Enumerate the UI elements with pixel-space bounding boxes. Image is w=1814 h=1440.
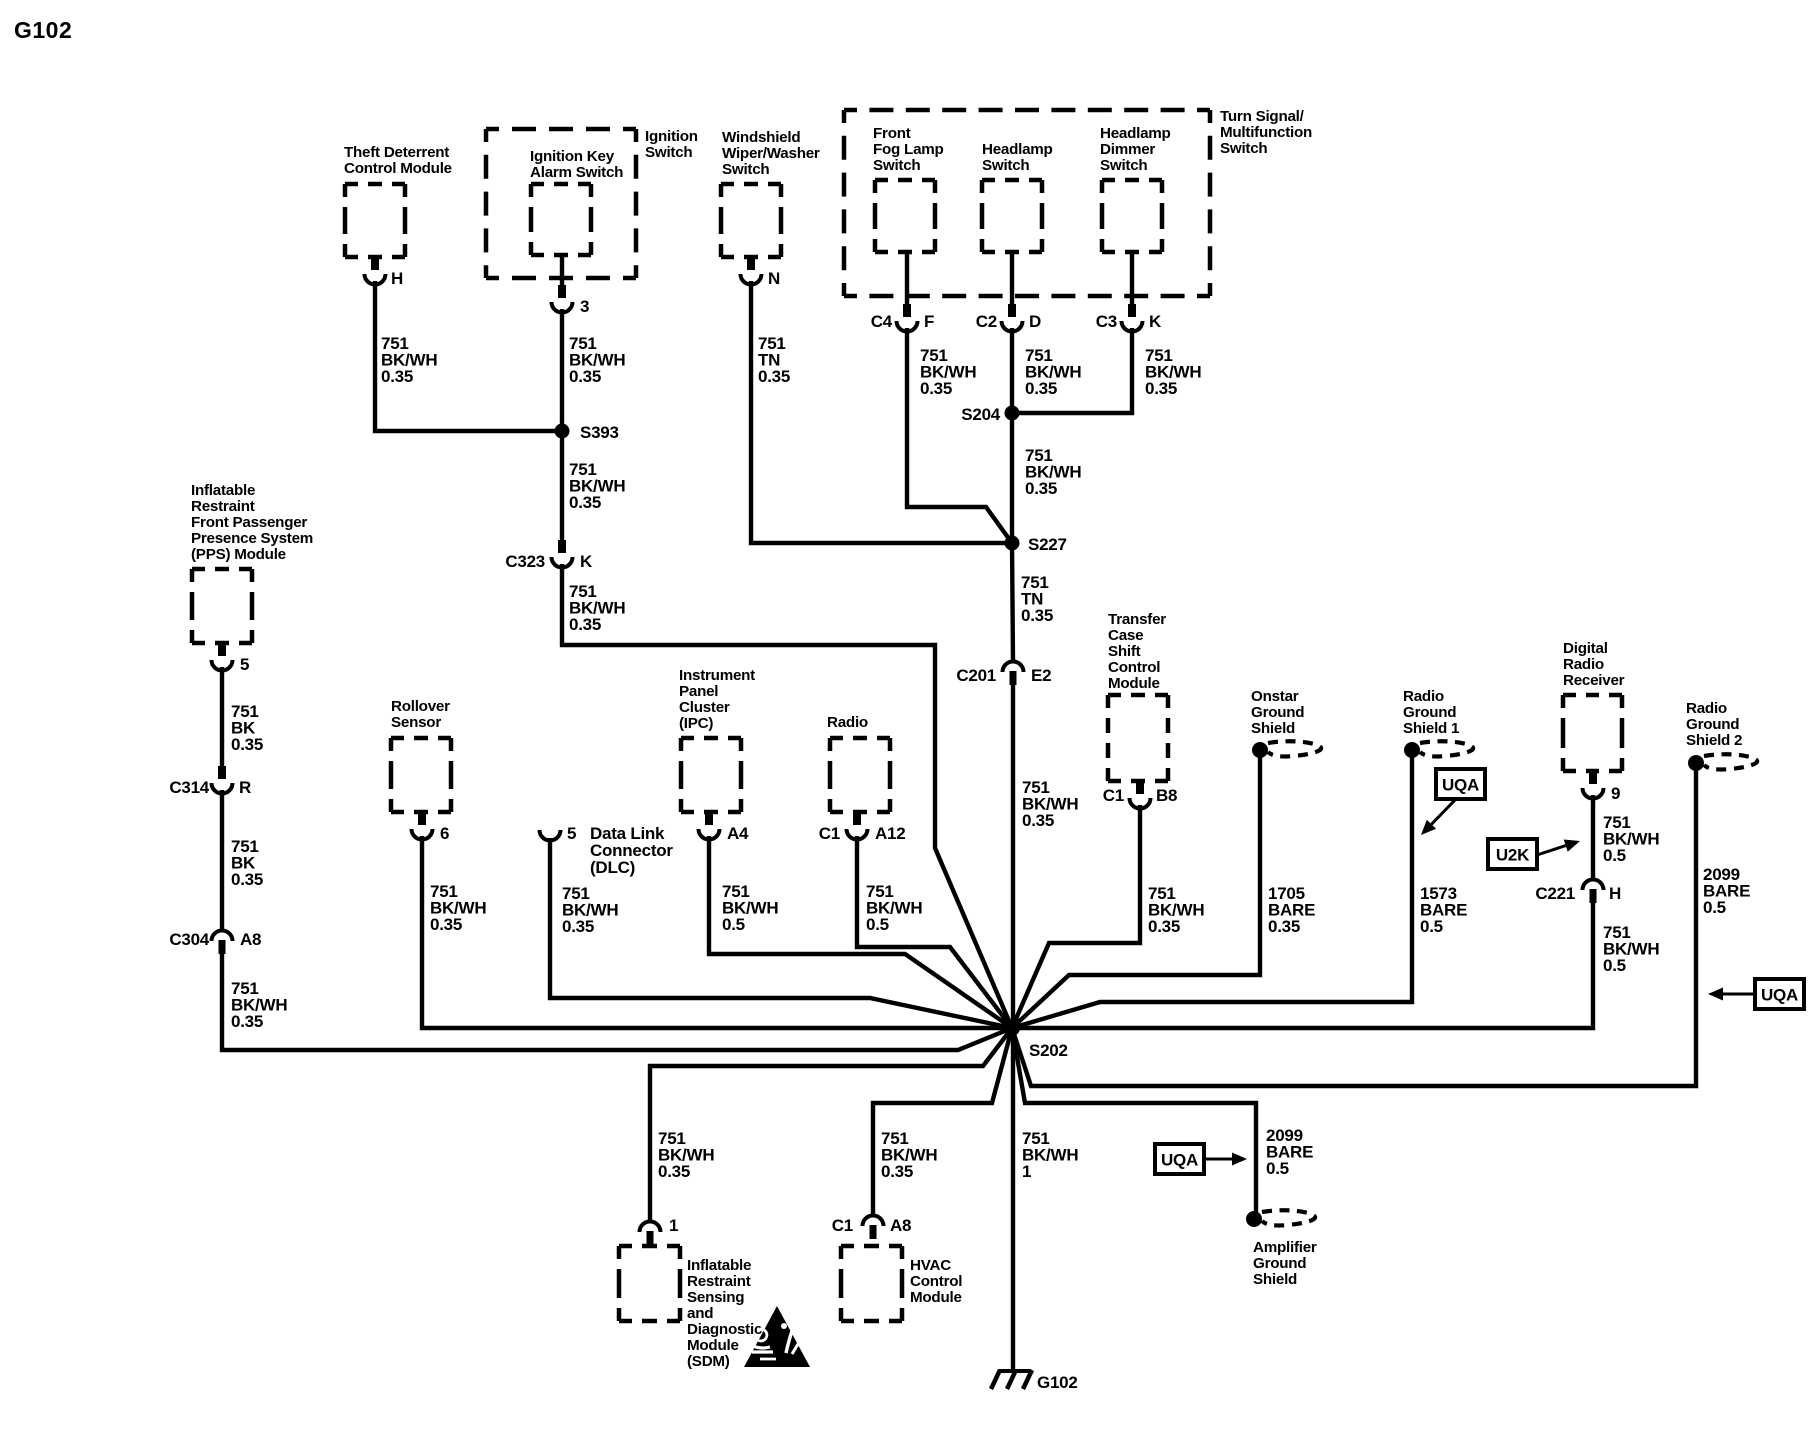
svg-text:A4: A4 (727, 824, 749, 843)
wire 1573 BARE 0.5 from Radio Ground Shield 1 to splice S202 (1012, 752, 1412, 1028)
wire 751 BK/WH 0.35 from C323 K to splice S202 (562, 564, 1012, 1028)
wire 2099 BARE 0.5 from splice S202 to Amplifier Ground Shield (1012, 1028, 1256, 1214)
svg-text:Front: Front (873, 125, 911, 142)
svg-text:Control: Control (910, 1273, 962, 1290)
svg-text:C4: C4 (871, 312, 893, 331)
svg-text:Alarm Switch: Alarm Switch (530, 164, 623, 181)
svg-text:Theft Deterrent: Theft Deterrent (344, 144, 449, 161)
wire 751 BK/WH 0.35 from splice S202 to SDM pin 1 (650, 1028, 1012, 1221)
connector C1 pin B8 of Transfer Case Shift Control Module (1136, 781, 1144, 794)
connector pin A4 of IPC (705, 812, 713, 825)
svg-text:Shield: Shield (1251, 720, 1295, 737)
svg-text:Shield: Shield (1253, 1271, 1297, 1288)
label U2K pointing to Digital Radio Receiver wire (1488, 839, 1537, 869)
svg-text:Ground: Ground (1403, 704, 1456, 721)
svg-text:Module: Module (1108, 675, 1160, 692)
connector pin 1 of SDM (640, 1222, 661, 1233)
connector pin 5 of PPS Module (218, 643, 226, 656)
svg-text:0.35: 0.35 (1025, 479, 1057, 498)
wire 1705 BARE 0.35 from Onstar Ground Shield to splice S202 (1012, 752, 1260, 1028)
svg-text:Switch: Switch (722, 161, 769, 178)
svg-text:Headlamp: Headlamp (982, 141, 1053, 158)
svg-text:Digital: Digital (1563, 640, 1608, 657)
svg-text:Ignition Key: Ignition Key (530, 148, 615, 165)
connector C221 pin H (1583, 880, 1604, 890)
connector C1 pin A8 of HVAC Control Module (863, 1216, 884, 1227)
svg-text:Radio: Radio (1686, 700, 1727, 717)
svg-text:0.35: 0.35 (1148, 917, 1180, 936)
svg-text:5: 5 (567, 824, 576, 843)
svg-text:0.5: 0.5 (1703, 898, 1726, 917)
svg-text:S202: S202 (1029, 1041, 1068, 1060)
svg-text:H: H (1609, 884, 1621, 903)
svg-text:Front Passenger: Front Passenger (191, 514, 307, 531)
svg-text:Control: Control (1108, 659, 1160, 676)
svg-text:Shield 1: Shield 1 (1403, 720, 1460, 737)
wire 751 BK/WH 0.35 from DLC 5 to splice S202 (550, 838, 1012, 1028)
svg-text:H: H (391, 269, 403, 288)
wire 751 BK/WH 0.35 from Theft module pin H to S393 (375, 281, 556, 431)
svg-text:Switch: Switch (1220, 140, 1267, 157)
svg-text:A8: A8 (890, 1216, 911, 1235)
component Inflatable Restraint Sensing and Diagnostic Module (SDM) (619, 1244, 680, 1249)
connector C2 pin D of Headlamp Switch (1010, 252, 1014, 304)
svg-text:Restraint: Restraint (191, 498, 255, 515)
connector pin 6 of Rollover Sensor (418, 812, 426, 825)
svg-text:6: 6 (440, 824, 449, 843)
svg-text:0.35: 0.35 (1025, 379, 1057, 398)
svg-text:Ignition: Ignition (645, 128, 698, 145)
svg-text:Headlamp: Headlamp (1100, 125, 1171, 142)
wire 2099 BARE 0.5 from Radio Ground Shield 2 to splice S202 (1012, 765, 1696, 1086)
svg-text:Panel: Panel (679, 683, 718, 700)
connector C201 pin E2 (1003, 662, 1024, 673)
svg-text:S393: S393 (580, 423, 619, 442)
svg-text:0.35: 0.35 (569, 615, 601, 634)
svg-text:Amplifier: Amplifier (1253, 1239, 1317, 1256)
airbag warning symbol (744, 1306, 810, 1367)
wire 751 BK/WH 0.35 from Ignition pin 3 to S393 (560, 309, 564, 431)
svg-text:D: D (1029, 312, 1041, 331)
svg-text:B8: B8 (1156, 786, 1177, 805)
svg-text:Ground: Ground (1251, 704, 1304, 721)
svg-text:Instrument: Instrument (679, 667, 755, 684)
svg-text:0.35: 0.35 (758, 367, 790, 386)
svg-text:HVAC: HVAC (910, 1257, 951, 1274)
svg-text:C201: C201 (956, 666, 996, 685)
svg-text:F: F (924, 312, 934, 331)
svg-text:G102: G102 (1037, 1373, 1078, 1392)
svg-text:0.35: 0.35 (562, 917, 594, 936)
svg-text:Radio: Radio (827, 714, 868, 731)
svg-text:Inflatable: Inflatable (687, 1257, 751, 1274)
svg-text:0.35: 0.35 (231, 870, 263, 889)
svg-text:Module: Module (910, 1289, 962, 1306)
connector C323 pin K (558, 540, 566, 553)
svg-text:0.35: 0.35 (658, 1162, 690, 1181)
wire 751 BK 0.35 from C314 R to C304 (220, 790, 224, 930)
svg-text:Diagnostic: Diagnostic (687, 1321, 762, 1338)
svg-text:Wiper/Washer: Wiper/Washer (722, 145, 820, 162)
svg-text:R: R (239, 778, 251, 797)
svg-text:Fog Lamp: Fog Lamp (873, 141, 944, 158)
svg-text:(PPS) Module: (PPS) Module (191, 546, 286, 563)
svg-text:U2K: U2K (1496, 846, 1530, 865)
svg-text:Radio: Radio (1403, 688, 1444, 705)
svg-text:0.35: 0.35 (1268, 917, 1300, 936)
svg-text:S204: S204 (961, 405, 1000, 424)
svg-text:Switch: Switch (1100, 157, 1147, 174)
connector C1 pin A12 of Radio (853, 812, 861, 825)
svg-text:K: K (580, 552, 593, 571)
svg-text:0.35: 0.35 (1021, 606, 1053, 625)
svg-text:Ground: Ground (1686, 716, 1739, 733)
wire 751 BK/WH 0.35 from S204 to S227 (1010, 413, 1014, 543)
svg-text:(SDM): (SDM) (687, 1353, 730, 1370)
wire 751 BK/WH 1 from splice S202 to ground G102 (1011, 1028, 1015, 1371)
connector pin 9 of Digital Radio Receiver (1589, 771, 1597, 784)
svg-text:3: 3 (580, 297, 589, 316)
svg-text:1: 1 (1022, 1162, 1031, 1181)
svg-text:Sensing: Sensing (687, 1289, 744, 1306)
connector pin H of Theft Deterrent Control Module (371, 257, 379, 270)
label UQA pointing to Radio Ground Shield 2 wire (1755, 979, 1804, 1009)
svg-text:0.35: 0.35 (881, 1162, 913, 1181)
wire 751 BK/WH 0.35 from Rollover 6 to splice S202 (422, 836, 1012, 1028)
splice S204 (1005, 406, 1020, 421)
label UQA pointing to Radio Ground Shield 1 wire (1436, 769, 1485, 799)
svg-text:Shift: Shift (1108, 643, 1141, 660)
wire 751 BK/WH 0.35 from C201 E2 to splice S202 (1011, 684, 1015, 1028)
wire 751 BK/WH 0.35 from C3 K to S204 (1018, 328, 1132, 413)
svg-text:C323: C323 (505, 552, 545, 571)
svg-text:5: 5 (240, 655, 249, 674)
svg-text:0.35: 0.35 (231, 1012, 263, 1031)
ground G102 (999, 1369, 1031, 1373)
svg-text:Receiver: Receiver (1563, 672, 1625, 689)
svg-text:0.35: 0.35 (920, 379, 952, 398)
svg-text:Shield 2: Shield 2 (1686, 732, 1742, 749)
svg-text:0.5: 0.5 (1266, 1159, 1289, 1178)
svg-text:0.35: 0.35 (1022, 811, 1054, 830)
svg-text:G102: G102 (14, 17, 72, 43)
svg-text:Radio: Radio (1563, 656, 1604, 673)
splice S202 (1004, 1020, 1020, 1036)
svg-text:0.35: 0.35 (430, 915, 462, 934)
svg-text:0.5: 0.5 (1603, 956, 1626, 975)
connector C3 pin K of Headlamp Dimmer Switch (1130, 252, 1134, 304)
svg-text:0.35: 0.35 (569, 493, 601, 512)
svg-text:S227: S227 (1028, 535, 1067, 554)
svg-text:Sensor: Sensor (391, 714, 441, 731)
svg-text:N: N (768, 269, 780, 288)
svg-text:C3: C3 (1096, 312, 1117, 331)
svg-text:Rollover: Rollover (391, 698, 450, 715)
wire 751 BK/WH 0.35 from C4 F to S227 (907, 328, 1012, 543)
wire 751 BK/WH 0.35 from splice S202 to HVAC C1 A8 (873, 1028, 1012, 1215)
svg-text:C1: C1 (832, 1216, 853, 1235)
svg-text:Presence System: Presence System (191, 530, 313, 547)
svg-text:Cluster: Cluster (679, 699, 730, 716)
svg-text:Inflatable: Inflatable (191, 482, 255, 499)
svg-text:0.5: 0.5 (722, 915, 745, 934)
svg-text:0.35: 0.35 (1145, 379, 1177, 398)
svg-text:A12: A12 (875, 824, 905, 843)
wire 751 BK/WH 0.35 from S393 to C323 (560, 431, 564, 540)
svg-text:Turn Signal/: Turn Signal/ (1220, 108, 1305, 125)
svg-text:0.35: 0.35 (381, 367, 413, 386)
wire 751 TN 0.35 from S227 to C201 (1012, 543, 1013, 661)
connector C304 pin A8 (212, 931, 233, 942)
label UQA pointing to Amplifier Ground Shield wire (1155, 1144, 1204, 1174)
wire 751 BK/WH 0.35 from C304 A8 to splice S202 (222, 953, 1012, 1050)
svg-text:UQA: UQA (1442, 776, 1479, 795)
wire 751 BK/WH 0.5 from C221 H to splice S202 (1012, 902, 1593, 1028)
connector pin N of Windshield Wiper/Washer Switch (747, 257, 755, 270)
svg-text:Case: Case (1108, 627, 1143, 644)
connector C314 pin R (218, 766, 226, 779)
connector C4 pin F of Front Fog Lamp Switch (905, 252, 909, 304)
svg-text:Restraint: Restraint (687, 1273, 751, 1290)
svg-text:Dimmer: Dimmer (1100, 141, 1155, 158)
svg-text:0.5: 0.5 (1603, 846, 1626, 865)
splice S393 (555, 424, 570, 439)
wire 751 BK/WH 0.5 from IPC A4 to splice S202 (709, 836, 1012, 1028)
svg-text:1: 1 (669, 1216, 678, 1235)
splice S227 (1005, 536, 1020, 551)
svg-text:Switch: Switch (982, 157, 1029, 174)
svg-text:Transfer: Transfer (1108, 611, 1166, 628)
wire 751 BK/WH 0.5 from Digital Radio 9 to C221 (1591, 795, 1595, 879)
connector pin 5 of Data Link Connector (DLC) (540, 830, 561, 841)
svg-text:Ground: Ground (1253, 1255, 1306, 1272)
svg-text:C2: C2 (976, 312, 997, 331)
wire 751 BK 0.35 from PPS pin 5 to C314 (220, 667, 224, 766)
svg-text:C221: C221 (1535, 884, 1575, 903)
svg-text:0.35: 0.35 (231, 735, 263, 754)
svg-text:Multifunction: Multifunction (1220, 124, 1312, 141)
svg-text:and: and (687, 1305, 713, 1322)
svg-text:C1: C1 (1103, 786, 1124, 805)
svg-text:UQA: UQA (1161, 1151, 1198, 1170)
svg-text:E2: E2 (1031, 666, 1051, 685)
svg-text:Windshield: Windshield (722, 129, 800, 146)
svg-text:UQA: UQA (1761, 986, 1798, 1005)
svg-text:C314: C314 (169, 778, 209, 797)
svg-text:9: 9 (1611, 784, 1620, 803)
svg-text:0.5: 0.5 (1420, 917, 1443, 936)
wire 751 TN 0.35 from Wiper switch N to S227 (751, 281, 1006, 543)
svg-text:(DLC): (DLC) (590, 858, 635, 877)
connector pin 3 of Ignition Key Alarm Switch (560, 255, 564, 285)
wire 751 BK/WH 0.5 from Radio C1 A12 to splice S202 (857, 836, 1012, 1028)
svg-text:Switch: Switch (645, 144, 692, 161)
node Amplifier Ground Shield (1246, 1211, 1262, 1227)
svg-text:0.35: 0.35 (569, 367, 601, 386)
component HVAC Control Module (841, 1244, 902, 1249)
svg-text:Switch: Switch (873, 157, 920, 174)
svg-text:C304: C304 (169, 930, 209, 949)
svg-text:C1: C1 (819, 824, 840, 843)
svg-text:K: K (1149, 312, 1162, 331)
svg-text:A8: A8 (240, 930, 261, 949)
svg-text:Control Module: Control Module (344, 160, 452, 177)
svg-text:0.5: 0.5 (866, 915, 889, 934)
wire 751 BK/WH 0.35 from Transfer Case C1 B8 to splice S202 (1012, 805, 1140, 1028)
svg-text:Onstar: Onstar (1251, 688, 1299, 705)
wire 751 BK/WH 0.35 from C2 D to S204 (1010, 328, 1014, 413)
svg-text:(IPC): (IPC) (679, 715, 713, 732)
svg-text:Module: Module (687, 1337, 739, 1354)
